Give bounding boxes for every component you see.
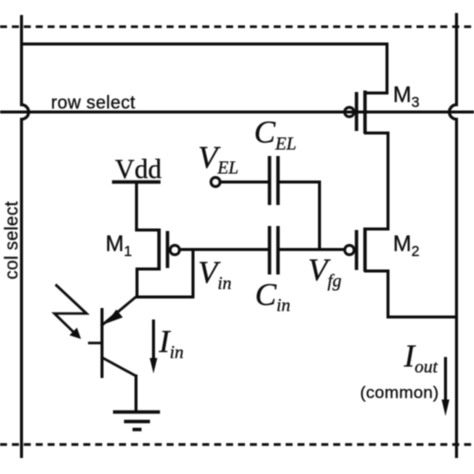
light arrow (incident photons) — [55, 285, 87, 340]
capacitor CEL — [270, 156, 279, 205]
wire: node Vfg (Cin to M2 gate) — [278, 248, 346, 251]
svg-text:Vdd: Vdd — [115, 154, 162, 184]
power Vdd bar — [112, 180, 161, 183]
svg-text:(common): (common) — [360, 383, 439, 402]
wire: top cell-boundary dashed line — [0, 25, 474, 28]
transistor M2 (pMOS) — [345, 228, 457, 318]
svg-text:row select: row select — [51, 93, 136, 113]
wire: col select vertical bus (hops over row select) — [22, 15, 29, 458]
current arrow Iout — [442, 357, 450, 416]
wire: bottom cell-boundary dashed line — [0, 443, 474, 446]
wire: row select horizontal line — [0, 111, 474, 114]
wire: node Vin (M1 gate to Cin, feedback to drain) — [136, 250, 269, 298]
phototransistor Q1 — [88, 296, 137, 411]
ground — [113, 412, 160, 430]
transistor M1 (pMOS, diode-connected) — [137, 229, 180, 298]
wire: VEL to CEL left plate — [220, 181, 269, 184]
wire: Vdd to M1 source — [137, 182, 159, 230]
capacitor Cin — [270, 226, 279, 275]
wire: right output bus (hops over row select) — [449, 13, 456, 458]
terminal VEL input — [211, 178, 220, 187]
transistor M3 (pMOS) — [345, 91, 388, 229]
wire: CEL right plate down to Vfg — [278, 182, 320, 250]
wire: top supply rail to M3 source — [22, 44, 388, 93]
current arrow Iin — [150, 320, 158, 374]
svg-text:col select: col select — [2, 201, 22, 280]
